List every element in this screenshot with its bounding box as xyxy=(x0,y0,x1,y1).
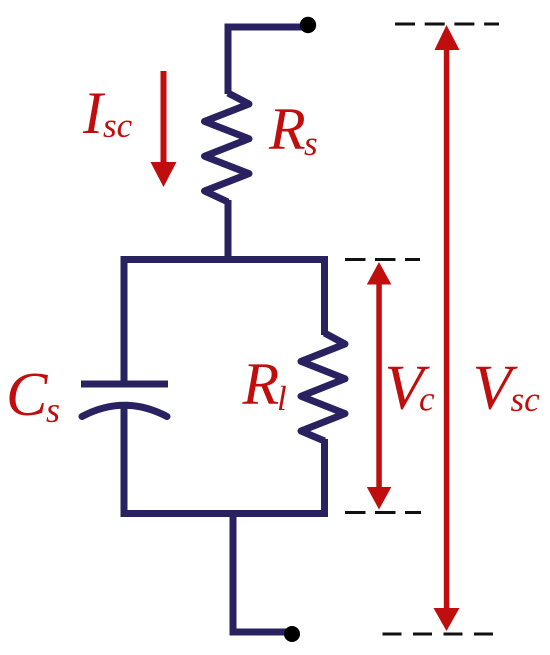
dashed level line bottom (V_sc bottom reference) xyxy=(383,633,495,636)
dashed level line top (V_sc top reference) xyxy=(395,23,499,26)
resistor R_l xyxy=(301,333,345,441)
svg-text:C: C xyxy=(6,361,48,429)
svg-text:sc: sc xyxy=(511,380,541,419)
current arrow I_sc xyxy=(151,71,177,187)
svg-text:s: s xyxy=(46,390,60,430)
svg-text:l: l xyxy=(277,379,287,418)
svg-text:R: R xyxy=(268,96,306,162)
svg-text:c: c xyxy=(419,380,435,419)
terminal dot top xyxy=(300,17,316,33)
voltage arrow V_c (double headed) xyxy=(367,262,392,510)
terminal dot bottom xyxy=(284,626,300,642)
voltage arrow V_sc (double headed) xyxy=(434,25,460,631)
wire: loop bottom rail and lower branches xyxy=(124,406,325,514)
capacitor C_s top plate xyxy=(81,381,168,388)
dashed level line V_c bottom reference xyxy=(345,511,421,514)
wire: bottom stub to terminal xyxy=(233,510,288,632)
svg-text:R: R xyxy=(242,351,280,417)
capacitor C_s bottom curved plate xyxy=(82,405,167,416)
wire top: terminal lead to resistor Rs xyxy=(228,27,304,94)
dashed level line V_c top reference xyxy=(345,258,420,261)
resistor R_s xyxy=(205,93,250,202)
svg-text:s: s xyxy=(304,124,318,163)
svg-text:sc: sc xyxy=(103,106,133,145)
wire: Rs to parallel loop top xyxy=(225,200,232,263)
wire: loop top rail and upper branches xyxy=(124,260,325,386)
